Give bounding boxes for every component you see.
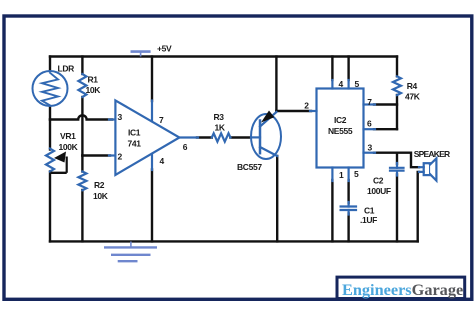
wire op-amp pin7 to rail (black part)	[151, 57, 153, 102]
svg-text:C2: C2	[373, 176, 384, 186]
resistor R1	[78, 74, 86, 97]
wire C2 branch down from pin3 wire	[396, 153, 398, 164]
svg-text:NE555: NE555	[328, 126, 353, 136]
potentiometer VR1 wiper wire	[66, 157, 68, 173]
transistor base lead	[251, 136, 260, 138]
svg-text:6: 6	[367, 119, 372, 129]
wire node A to VR1 top	[49, 120, 51, 150]
wire pin2 branch horizontal	[82, 154, 110, 156]
op-amp pin 7 lead	[151, 101, 153, 122]
svg-text:1: 1	[339, 170, 344, 180]
wire transistor collector to bottom rail	[276, 156, 278, 241]
wire speaker bottom terminal to rail	[418, 172, 419, 242]
transistor base bar	[259, 121, 262, 154]
wire op-amp pin4 to bottom rail (black part)	[151, 170, 153, 242]
wire emitter node to IC2 pin2	[276, 110, 311, 112]
capacitor C1 plates	[341, 207, 356, 211]
IC2 NE555 body	[317, 89, 364, 168]
wire C1 bottom to rail	[347, 214, 349, 242]
op-amp pin 6 output lead	[179, 136, 198, 138]
capacitor C2 leads	[396, 163, 398, 176]
transistor collector lead	[260, 147, 277, 156]
svg-text:4: 4	[160, 156, 165, 166]
svg-text:100K: 100K	[59, 142, 79, 152]
IC2 pin 3 stub	[364, 152, 376, 154]
svg-text:SPEAKER: SPEAKER	[414, 149, 450, 159]
wire R3 to transistor base lead	[230, 136, 252, 138]
IC2 pin 6 stub	[364, 128, 376, 130]
LDR zigzag element	[42, 73, 58, 106]
potentiometer VR1 zigzag	[46, 149, 54, 172]
wire op-amp output to R3	[197, 136, 212, 138]
wire node A horizontal with hop over R1-R2 wire	[50, 115, 112, 119]
transistor emitter arrowhead	[261, 111, 274, 123]
transistor emitter lead	[260, 112, 276, 127]
svg-text:100UF: 100UF	[367, 186, 391, 196]
svg-text:47K: 47K	[405, 91, 421, 101]
speaker cone	[430, 158, 436, 180]
wire R1 top (rail to R1)	[81, 57, 83, 75]
svg-text:7: 7	[159, 115, 164, 125]
svg-text:C1: C1	[364, 206, 375, 216]
svg-text:LDR: LDR	[58, 64, 75, 74]
wire R1 bottom to pin2 node	[81, 97, 83, 156]
IC2 pin 2 stub	[310, 110, 317, 112]
capacitor C2 plates	[390, 168, 404, 171]
IC2 pin 5 top stub	[348, 80, 350, 89]
resistor R2	[78, 172, 86, 191]
wire IC2 pin4 to rail	[331, 57, 333, 81]
wire transistor emitter to rail	[275, 57, 277, 112]
wire R2 bottom to rail	[81, 190, 83, 241]
capacitor C1 leads	[348, 202, 350, 215]
IC2 pin 4 stub	[331, 80, 333, 89]
svg-text:3: 3	[118, 112, 123, 122]
svg-text:R4: R4	[407, 81, 418, 91]
wire IC2 pin3 to speaker corner	[374, 153, 419, 168]
LDR photoresistor body	[33, 71, 68, 106]
svg-text:741: 741	[128, 138, 142, 148]
wire R4 bottom vertical to pin6 level	[396, 95, 398, 129]
wire LDR bottom to node A	[49, 105, 51, 120]
svg-text:5: 5	[354, 169, 359, 179]
svg-text:6: 6	[183, 142, 188, 152]
svg-text:R3: R3	[214, 112, 225, 122]
wire IC2 pin1 to bottom rail	[331, 180, 333, 241]
transistor Q1 BC557 body	[251, 114, 281, 159]
+5V supply stub	[140, 52, 142, 57]
potentiometer VR1 wiper arrowhead	[54, 152, 66, 163]
wire +5V top rail	[50, 55, 397, 57]
svg-text:10K: 10K	[86, 85, 102, 95]
wire IC2 pin5 bottom to C1	[347, 180, 349, 203]
speaker body	[424, 163, 430, 175]
wire VR1 bottom to bottom rail	[49, 172, 51, 242]
wire IC2 pin7 to R4 bottom	[374, 103, 397, 105]
svg-text:IC2: IC2	[334, 115, 347, 125]
svg-text:5: 5	[355, 79, 360, 89]
op-amp pin 2 stub	[109, 154, 115, 156]
wire pin6 to R4 vertical	[374, 128, 397, 130]
svg-text:1K: 1K	[215, 122, 226, 132]
svg-text:3: 3	[368, 143, 373, 153]
speaker terminal stubs	[419, 167, 424, 172]
svg-text:R2: R2	[94, 180, 105, 190]
+5V supply bar	[131, 50, 151, 53]
ground symbol	[130, 242, 132, 248]
EngineersGarage logo box	[337, 277, 465, 298]
svg-text:2: 2	[118, 152, 123, 162]
IC2 pin 7 stub	[364, 103, 376, 105]
wire R4 top (rail corner)	[396, 57, 398, 77]
svg-text:BC557: BC557	[237, 162, 262, 172]
svg-text:7: 7	[367, 97, 372, 107]
op-amp IC1 741 triangle	[115, 100, 179, 174]
wire C2 bottom to rail	[396, 175, 398, 242]
op-amp pin 3 stub	[109, 118, 115, 120]
svg-text:+5V: +5V	[157, 43, 172, 53]
svg-text:R1: R1	[88, 75, 99, 85]
op-amp pin 4 lead	[151, 154, 153, 170]
svg-text:10K: 10K	[93, 191, 109, 201]
wire IC2 pin5 top to rail	[347, 57, 349, 81]
svg-text:.1UF: .1UF	[360, 215, 377, 225]
resistor R3	[212, 133, 231, 141]
wire bottom rail	[50, 240, 418, 242]
svg-text:EngineersGarage: EngineersGarage	[342, 280, 463, 299]
wire pin2 node to R2	[81, 156, 83, 172]
IC2 pin 1 stub	[331, 168, 333, 182]
svg-text:IC1: IC1	[128, 128, 141, 138]
svg-text:4: 4	[339, 79, 344, 89]
svg-text:VR1: VR1	[60, 131, 76, 141]
resistor R4	[393, 76, 401, 95]
wire left vertical top (rail to LDR)	[49, 57, 51, 73]
IC2 pin 5 bottom stub	[348, 168, 350, 182]
svg-text:2: 2	[304, 101, 309, 111]
